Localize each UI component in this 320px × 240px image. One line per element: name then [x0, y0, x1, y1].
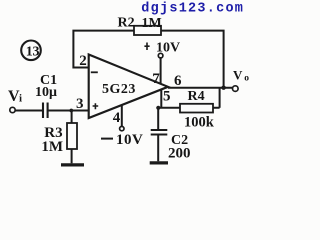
svg-text:V: V — [233, 67, 243, 82]
svg-text:4: 4 — [113, 110, 121, 126]
svg-text:7: 7 — [152, 71, 160, 87]
svg-text:13: 13 — [26, 45, 40, 60]
svg-text:200: 200 — [168, 146, 191, 162]
svg-text:o: o — [244, 74, 249, 84]
svg-text:3: 3 — [76, 96, 84, 112]
svg-text:dgjs123.com: dgjs123.com — [141, 1, 244, 16]
svg-text:1M: 1M — [142, 16, 162, 31]
svg-text:10μ: 10μ — [35, 85, 57, 100]
svg-text:R4: R4 — [188, 89, 205, 104]
svg-text:5: 5 — [163, 89, 171, 105]
svg-text:2: 2 — [79, 53, 87, 69]
svg-text:10V: 10V — [156, 40, 180, 55]
svg-text:6: 6 — [174, 73, 182, 89]
svg-text:5G23: 5G23 — [102, 82, 136, 97]
svg-text:i: i — [19, 93, 22, 105]
svg-text:10V: 10V — [116, 132, 143, 148]
svg-text:1M: 1M — [41, 139, 63, 155]
svg-text:100k: 100k — [184, 115, 215, 131]
svg-text:R2: R2 — [118, 15, 135, 30]
